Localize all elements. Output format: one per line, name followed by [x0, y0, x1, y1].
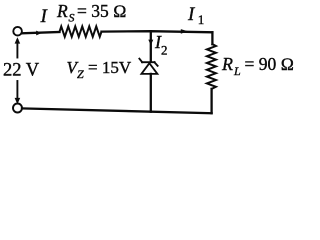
- label: RS = 35 Ω: [56, 1, 127, 25]
- resistor RS (zigzag): [60, 26, 102, 36]
- terminal (bottom-left input): [13, 104, 22, 113]
- wire: top, from top terminal to resistor RS: [22, 32, 60, 33]
- wire: right branch vertical (RL down to bottom-right corner): [210, 89, 212, 113]
- svg-text:R: R: [221, 54, 233, 74]
- svg-text:22 V: 22 V: [3, 61, 40, 81]
- svg-text:= 35 Ω: = 35 Ω: [77, 1, 127, 21]
- wire: bottom, from bottom-right corner to bottom terminal: [22, 108, 212, 113]
- source annotation 22 V : upper arrow (points up to top terminal): [15, 37, 21, 57]
- wire: top, from RS to node with zener and on to top-right corner: [102, 31, 213, 32]
- svg-text:I: I: [40, 6, 49, 27]
- svg-text:S: S: [69, 11, 75, 25]
- svg-text:1: 1: [198, 12, 205, 27]
- svg-text:Z: Z: [77, 67, 84, 81]
- label: RL = 90 Ω: [221, 54, 294, 78]
- resistor RL (vertical zigzag): [207, 44, 216, 89]
- wire: zener branch from top node down to zener cathode: [150, 31, 152, 62]
- zener diode VZ : cathode bar with bent ends: [139, 59, 157, 66]
- current arrow I (on top-left wire): [36, 31, 42, 36]
- svg-text:2: 2: [161, 43, 168, 58]
- svg-text:= 15V: = 15V: [88, 58, 132, 77]
- source annotation 22 V : lower arrow (points down to bottom terminal): [15, 81, 21, 104]
- label: VZ = 15V: [67, 58, 132, 81]
- svg-text:R: R: [56, 1, 68, 21]
- svg-text:I: I: [187, 4, 196, 25]
- label: current I1: [187, 4, 204, 27]
- terminal (top-left input): [13, 27, 22, 36]
- label: current I2: [154, 32, 168, 58]
- svg-text:L: L: [233, 64, 241, 78]
- current arrow I1 (on top wire, before right corner): [181, 29, 188, 34]
- zener diode VZ : anode triangle (outline, pointing up): [141, 63, 157, 74]
- svg-text:= 90 Ω: = 90 Ω: [245, 54, 295, 74]
- wire: zener anode down to bottom wire: [150, 74, 152, 112]
- current arrow I2 (on zener branch, pointing down): [148, 40, 153, 46]
- wire: right branch vertical (top corner down to RL): [211, 32, 213, 44]
